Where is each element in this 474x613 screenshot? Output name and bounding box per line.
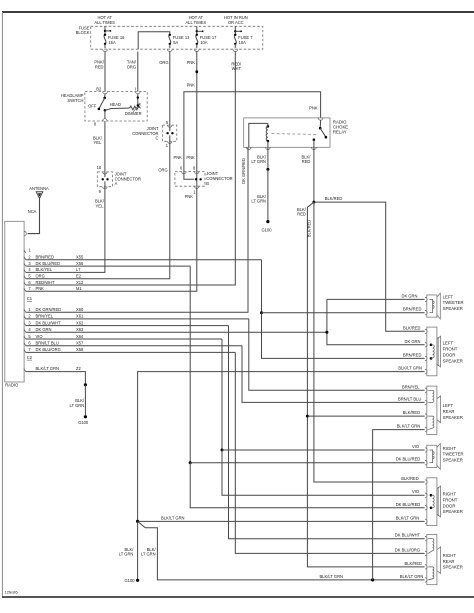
wire DK BLU/WHT radio C2-3 to right rear speaker: [229, 326, 425, 539]
fuse F17 10A: [196, 35, 198, 44]
svg-text:RED: RED: [95, 64, 104, 69]
wire VIO radio C2-5 to right tweeter and right front door: [221, 339, 223, 450]
wire ORG fuse13 down to joint connector C: [169, 52, 171, 126]
svg-text:PNK: PNK: [186, 155, 195, 160]
wire BLK/YEL switch pin 8 to joint connector A: [104, 121, 106, 172]
joint connector A: [97, 172, 112, 187]
wire BLK/RED branch to right front door speaker: [314, 202, 425, 482]
wire BRN/RED radio C1-2 to left tweeter and left front door: [261, 260, 263, 313]
page top border: [2, 11, 474, 13]
joint connector C: [162, 125, 176, 141]
svg-text:B: B: [206, 181, 209, 186]
svg-text:C2: C2: [27, 355, 33, 360]
svg-text:LT GRN: LT GRN: [251, 159, 266, 164]
radio pin 4 DK GRN: [24, 329, 26, 332]
svg-text:I: I: [135, 87, 136, 92]
svg-text:REAR: REAR: [443, 409, 455, 414]
svg-text:RED: RED: [302, 159, 311, 164]
svg-text:BRN/RED: BRN/RED: [403, 352, 421, 357]
svg-text:10A: 10A: [200, 40, 208, 45]
radio box: [5, 221, 24, 382]
svg-text:DK GRN: DK GRN: [405, 339, 421, 344]
svg-text:X63: X63: [76, 327, 84, 332]
ground G100 (speakers): [136, 579, 139, 582]
wire BLK/RED branch to left rear and right rear speakers: [307, 202, 424, 567]
wire DK GRN/RED relay coil to radio C2 pin 1: [26, 147, 248, 312]
fuse F17 output connector: [195, 49, 200, 51]
svg-text:VIO: VIO: [36, 334, 43, 339]
headlamp switch box: [85, 92, 147, 122]
svg-text:HEAD: HEAD: [110, 102, 121, 107]
radio pin 2 BRN/YEL: [24, 316, 26, 319]
svg-text:X12: X12: [76, 280, 84, 285]
speaker RS3 right rear: [425, 537, 427, 541]
radio pin 1 (not used): [24, 250, 26, 253]
svg-text:LEFT: LEFT: [443, 403, 454, 408]
svg-text:DK BLU/RED: DK BLU/RED: [36, 261, 61, 266]
svg-text:SPEAKER: SPEAKER: [443, 458, 463, 463]
wire TAN/ORG fuseblock to headlamp switch I: [137, 52, 139, 92]
wire DK GRN radio C2-4 to left tweeter and left front door: [327, 298, 425, 300]
svg-text:X62: X62: [76, 320, 84, 325]
fuse F7 output connector: [233, 49, 238, 51]
wire PNK fuse17 down to joint connector B pin 8: [196, 52, 198, 172]
svg-text:ORG: ORG: [127, 64, 136, 69]
wire DK BLU/RED radio C1-3 to right tweeter and right front door: [189, 266, 191, 463]
radio pin 4 BLK/YEL: [24, 269, 26, 272]
svg-text:WHT: WHT: [232, 66, 242, 71]
svg-text:DIMMER: DIMMER: [125, 111, 142, 116]
svg-text:A: A: [115, 181, 118, 186]
wire PNK joint connector B pin 6 up and right to relay: [184, 92, 321, 172]
svg-text:LT GRN: LT GRN: [141, 552, 156, 557]
wire BRN/YEL radio C2-2 to left rear speaker: [249, 319, 425, 390]
headlamp switch dimmer rheostat: [105, 108, 129, 110]
radio pin 3 DK BLU/WHT: [24, 323, 26, 326]
svg-text:RIGHT: RIGHT: [443, 553, 457, 558]
svg-text:BRN/YEL: BRN/YEL: [402, 384, 420, 389]
svg-text:BLK/LT GRN: BLK/LT GRN: [398, 366, 422, 371]
junction BLK/RED: [312, 201, 315, 204]
svg-text:DK GRN: DK GRN: [36, 327, 52, 332]
svg-text:RIGHT: RIGHT: [443, 446, 457, 451]
svg-text:BRN/YEL: BRN/YEL: [36, 314, 54, 319]
svg-text:SPEAKER: SPEAKER: [443, 306, 463, 311]
wire PNK/RED fuse16 to headlamp switch B2: [104, 52, 106, 92]
svg-text:BRN/LT BLU: BRN/LT BLU: [398, 396, 421, 401]
wire BLK/RED relay switch down to junction: [313, 147, 315, 202]
svg-text:ALL TIMES: ALL TIMES: [185, 20, 206, 25]
svg-text:CONNECTOR: CONNECTOR: [115, 176, 141, 181]
wire DK BLU/ORG radio C2-7 to right rear speaker: [235, 352, 424, 553]
svg-text:PNK: PNK: [36, 286, 45, 291]
headlamp switch wiper from B2: [104, 94, 106, 98]
speaker LS2 left front door: [425, 329, 427, 333]
svg-text:X55: X55: [76, 255, 84, 260]
svg-text:PNK: PNK: [185, 194, 194, 199]
svg-text:SPEAKER: SPEAKER: [443, 565, 463, 570]
radio pin 5 ORG: [24, 276, 26, 279]
svg-text:VIO: VIO: [412, 489, 419, 494]
page left border: [1, 12, 3, 597]
svg-text:BLK/LT GRN: BLK/LT GRN: [161, 516, 185, 521]
junction ground splice: [84, 383, 87, 386]
svg-text:YEL: YEL: [96, 203, 104, 208]
wire BLK/LT GRN left rear speaker to rail: [373, 430, 425, 580]
radio pin 1 DK GRN/RED: [24, 309, 26, 312]
svg-text:G100: G100: [78, 420, 89, 425]
speaker RS2 right front door: [425, 480, 427, 484]
svg-text:BLK/RED: BLK/RED: [405, 561, 423, 566]
page bottom border: [2, 596, 474, 598]
svg-text:DK GRN/RED: DK GRN/RED: [36, 307, 62, 312]
svg-text:X57: X57: [76, 341, 84, 346]
wire BLK/RED junction to left front door speaker: [314, 202, 425, 331]
svg-text:ORG: ORG: [159, 60, 168, 65]
svg-text:BLK/LT GRN: BLK/LT GRN: [396, 515, 420, 520]
svg-text:BLK/RED: BLK/RED: [325, 196, 343, 201]
svg-text:Z2: Z2: [76, 366, 82, 371]
svg-text:BLK/YEL: BLK/YEL: [36, 267, 53, 272]
svg-text:PNK: PNK: [187, 83, 196, 88]
radio pin 3 DK BLU/RED: [24, 263, 26, 266]
fuse F7 feed wire: [234, 26, 236, 34]
svg-text:BLK/RED: BLK/RED: [403, 325, 421, 330]
junction BLK/RED to left rear speaker: [306, 415, 309, 418]
svg-text:M1: M1: [76, 286, 82, 291]
svg-text:BRN/LT BLU: BRN/LT BLU: [36, 341, 59, 346]
svg-text:ANTENNA: ANTENNA: [29, 186, 49, 191]
svg-text:LEFT: LEFT: [443, 294, 454, 299]
fuse F16 output connector: [103, 49, 108, 51]
svg-text:REAR: REAR: [443, 559, 455, 564]
svg-text:DK BLU/ORG: DK BLU/ORG: [36, 347, 61, 352]
svg-text:DK BLU/RED: DK BLU/RED: [396, 457, 421, 462]
svg-text:LT GRN: LT GRN: [251, 199, 266, 204]
svg-text:B2: B2: [96, 87, 102, 92]
svg-text:DK GRN/RED: DK GRN/RED: [241, 158, 246, 184]
svg-text:10A: 10A: [239, 40, 247, 45]
svg-text:BLK/RED: BLK/RED: [403, 410, 421, 415]
fuse F16 feed wire: [104, 26, 106, 34]
svg-text:C1: C1: [27, 296, 33, 301]
svg-text:DK GRN: DK GRN: [402, 293, 418, 298]
ground G100 (radio): [84, 415, 87, 418]
radio pin 7 PNK: [24, 288, 26, 291]
svg-text:LT GRN: LT GRN: [70, 403, 85, 408]
svg-text:RED/WHT: RED/WHT: [36, 280, 56, 285]
relay K1 radio choke relay box: [244, 118, 330, 147]
headlamp switch HEAD contact: [104, 109, 107, 112]
svg-text:BLK/LT GRN: BLK/LT GRN: [397, 424, 421, 429]
fuse F13 feed wire (from TAN/ORG tap): [138, 32, 170, 50]
radio pin 6 BRN/LT BLU: [24, 343, 26, 346]
svg-text:ORG: ORG: [36, 274, 45, 279]
svg-text:G100: G100: [124, 578, 135, 583]
svg-text:X58: X58: [76, 347, 84, 352]
svg-text:BRN/RED: BRN/RED: [403, 307, 421, 312]
speaker LS3 left rear: [425, 388, 427, 392]
relay bottom pin connectors: [247, 147, 252, 149]
wire BLK/LT GRN left front door speaker ground run: [138, 372, 425, 522]
svg-text:5A: 5A: [173, 40, 178, 45]
svg-text:SPEAKER: SPEAKER: [443, 415, 463, 420]
fuse F13 output connector: [168, 49, 173, 51]
svg-text:PNK: PNK: [173, 155, 182, 160]
svg-text:FRONT: FRONT: [443, 347, 458, 352]
svg-text:BRN/RED: BRN/RED: [36, 255, 54, 260]
wire BRN/LT BLU radio C2-6 to left rear speaker: [242, 346, 425, 403]
ground G100 (relay): [266, 220, 269, 223]
wire BLK/LT GRN relay to ground G100: [267, 147, 269, 169]
svg-text:ALL TIMES: ALL TIMES: [94, 20, 115, 25]
speaker connector pins: [425, 448, 427, 452]
svg-text:L7: L7: [76, 267, 81, 272]
junction BLK/LT GRN rear rail: [371, 578, 374, 581]
fuse F13 5A: [169, 35, 171, 44]
svg-text:10: 10: [97, 165, 102, 170]
svg-text:VIO: VIO: [412, 444, 419, 449]
svg-text:RELAY: RELAY: [333, 130, 347, 135]
svg-text:DK BLU/WHT: DK BLU/WHT: [395, 533, 421, 538]
radio pin 5 VIO: [24, 336, 26, 339]
fuse F17 feed wire: [196, 26, 198, 34]
svg-text:OFF: OFF: [88, 103, 97, 108]
svg-text:DK BLU/ORG: DK BLU/ORG: [395, 547, 420, 552]
svg-text:LT GRN: LT GRN: [119, 552, 134, 557]
svg-text:DOOR: DOOR: [443, 503, 456, 508]
svg-text:NCA: NCA: [28, 209, 37, 214]
svg-text:FRONT: FRONT: [443, 497, 458, 502]
svg-text:SPEAKER: SPEAKER: [443, 358, 463, 363]
wire BLK/LT GRN down to ground G100: [137, 521, 139, 580]
svg-text:BLK/RED: BLK/RED: [307, 220, 312, 238]
joint connector B: [175, 172, 205, 187]
svg-text:X64: X64: [76, 334, 84, 339]
junction ground splice mid: [136, 520, 139, 523]
svg-text:YEL: YEL: [94, 140, 102, 145]
fuse block box: [91, 26, 263, 49]
wire PNK joint connector B pin 1 to radio C1 pin 7: [26, 186, 197, 291]
radio pin 2 BRN/RED: [24, 257, 26, 260]
svg-text:BLK/RED: BLK/RED: [401, 476, 419, 481]
relay top pin connector: [318, 118, 323, 120]
svg-text:SWITCH: SWITCH: [67, 98, 83, 103]
svg-text:BLK/LT GRN: BLK/LT GRN: [36, 366, 60, 371]
svg-text:TWEETER: TWEETER: [443, 452, 464, 457]
relay coil: [249, 123, 268, 147]
wire BLK/LT GRN to right front door speaker: [138, 520, 425, 522]
headlamp switch dimmer feed from terminal I: [137, 94, 139, 106]
wire NCA antenna lead to radio: [28, 198, 40, 233]
svg-text:RIGHT: RIGHT: [443, 492, 457, 497]
svg-text:X56: X56: [76, 261, 84, 266]
svg-text:TWEETER: TWEETER: [443, 300, 464, 305]
svg-text:12test6: 12test6: [5, 590, 19, 595]
svg-text:BLK/LT GRN: BLK/LT GRN: [400, 574, 424, 579]
svg-text:X60: X60: [76, 307, 84, 312]
fuse F7 10A: [234, 35, 236, 44]
svg-text:PNK: PNK: [309, 105, 318, 110]
svg-text:E2: E2: [76, 274, 82, 279]
svg-text:RED: RED: [297, 212, 306, 217]
svg-text:OR ACC: OR ACC: [228, 20, 244, 25]
relay actuation dashed link: [272, 133, 317, 136]
wire RED/WHT fuse7 down to radio C1 pin 6: [26, 52, 236, 286]
relay switch: [319, 120, 321, 128]
wire BLK/LT GRN jog down to right rear speaker: [138, 521, 425, 580]
svg-text:BLK/LT GRN: BLK/LT GRN: [320, 574, 344, 579]
svg-text:LEFT: LEFT: [443, 341, 454, 346]
svg-text:PNK: PNK: [187, 60, 196, 65]
headlamp switch OFF contact: [98, 108, 101, 111]
svg-text:DK BLU/WHT: DK BLU/WHT: [36, 320, 62, 325]
svg-text:SPEAKER: SPEAKER: [443, 509, 463, 514]
wire ORG joint connector C to radio C1 pin 5: [26, 141, 170, 278]
radio pin 6 RED/WHT: [24, 282, 26, 285]
speaker connector pins: [425, 297, 427, 301]
headlamp switch terminal 8: [104, 110, 106, 118]
svg-text:X61: X61: [76, 314, 84, 319]
svg-text:C: C: [156, 136, 159, 141]
svg-text:CONNECTOR: CONNECTOR: [206, 176, 232, 181]
svg-text:BLOCK: BLOCK: [76, 30, 90, 35]
radio pin Z2 BLK/LT GRN ground: [24, 369, 26, 372]
fuse F16 15A: [104, 35, 106, 44]
radio pin 7 DK BLU/ORG: [24, 349, 26, 352]
svg-text:ORG: ORG: [158, 168, 167, 173]
wire BLK/YEL joint connector A to radio C1 pin 4: [26, 187, 105, 273]
svg-text:RADIO: RADIO: [5, 383, 18, 388]
svg-text:DK BLU/RED: DK BLU/RED: [396, 502, 421, 507]
svg-text:15A: 15A: [108, 40, 116, 45]
svg-text:DOOR: DOOR: [443, 353, 456, 358]
svg-text:G100: G100: [261, 228, 272, 233]
